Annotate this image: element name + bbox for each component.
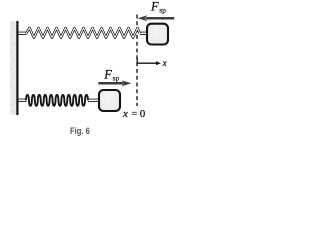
svg-text:x: x — [122, 108, 128, 120]
svg-text:x: x — [162, 58, 167, 68]
bottom spring attachment rod — [19, 99, 27, 102]
svg-text:0: 0 — [140, 108, 146, 120]
bottom spring end rod to block — [88, 99, 100, 102]
top spring end rod to block — [140, 32, 148, 35]
spring 2 (compressed, bottom) — [26, 95, 88, 106]
dashed line at x = 0 — [136, 15, 138, 107]
svg-text:F: F — [150, 0, 159, 13]
force arrow F_sp (top, pointing left) — [138, 15, 175, 21]
spring 1 (stretched, top) — [26, 28, 140, 38]
svg-text:Fig. 6: Fig. 6 — [70, 126, 90, 136]
x axis arrow — [137, 58, 161, 65]
svg-text:sp: sp — [159, 6, 166, 15]
svg-text:=: = — [132, 108, 138, 119]
svg-text:F: F — [103, 68, 112, 82]
svg-text:sp: sp — [113, 74, 120, 83]
mass block m2 (bottom) — [99, 90, 120, 111]
wall — [10, 21, 17, 115]
top spring attachment rod — [19, 32, 27, 35]
force arrow F_sp (bottom, pointing right) — [98, 80, 131, 86]
mass block m1 (top) — [147, 24, 168, 45]
